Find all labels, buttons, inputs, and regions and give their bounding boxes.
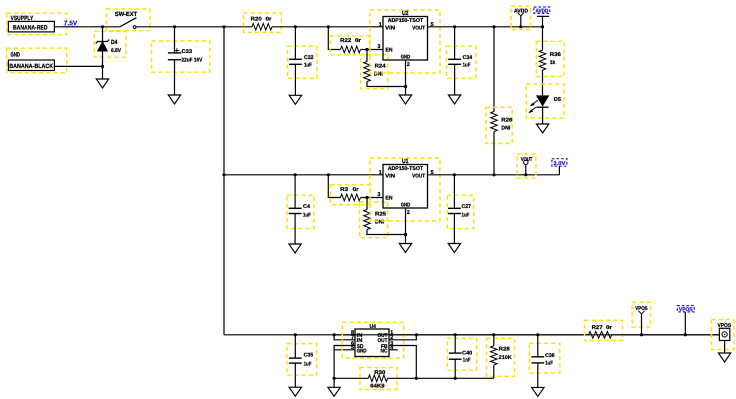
svg-text:0r: 0r (353, 187, 360, 193)
ground below D5 (536, 124, 548, 133)
svg-text:AVDD: AVDD (514, 9, 528, 15)
svg-text:R27: R27 (592, 325, 603, 331)
svg-text:NC: NC (381, 349, 388, 355)
capacitor C4 1uF (287, 175, 314, 244)
capacitor C33 22uF 16V (152, 27, 210, 95)
wire BANANA-BLACK to D4 node (54, 65, 102, 67)
wire U4 IN pins tie (334, 335, 355, 340)
ground below C36 (532, 387, 544, 396)
node junction U4 IN tie (333, 333, 336, 336)
wire down to R22 (328, 27, 340, 50)
node junction R30 left (333, 377, 336, 380)
connector VPOS (712, 320, 735, 354)
svg-text:R25: R25 (375, 211, 386, 217)
power symbol VPOS arrow (632, 302, 650, 335)
svg-text:AVDD: AVDD (536, 9, 549, 15)
wire U4 OUT pin1 (389, 334, 719, 336)
node junction C40 bottom (454, 377, 457, 380)
svg-text:1uF: 1uF (545, 361, 553, 367)
svg-text:C32: C32 (304, 55, 314, 61)
svg-text:1uF: 1uF (304, 362, 312, 368)
ground below C34 (448, 95, 460, 104)
zener diode D4 6.8V (94, 27, 126, 79)
svg-text:EN: EN (386, 195, 393, 201)
svg-text:6.8V: 6.8V (111, 48, 121, 54)
svg-text:D5: D5 (554, 97, 561, 103)
wire R26 to mid rail (493, 132, 495, 175)
svg-text:BANANA-RED: BANANA-RED (13, 24, 48, 31)
wire U4 OUT pin2 tie (389, 335, 416, 340)
svg-text:R3: R3 (340, 187, 348, 193)
node junction D4/BANANA-BLACK (101, 65, 104, 68)
node junction VOUT tap (524, 173, 527, 176)
wire U1 VOUT rail (428, 174, 560, 176)
node junction R24/GND pin (404, 85, 407, 88)
capacitor C27 1uF (447, 175, 473, 244)
capacitor C35 1uF (287, 335, 317, 387)
resistor R22 0r (330, 36, 369, 55)
ground below C35 (289, 387, 301, 396)
node junction C34 (453, 25, 456, 28)
node junction R3 branch (327, 173, 330, 176)
svg-text:3.0V: 3.0V (553, 161, 565, 167)
svg-text:U2: U2 (402, 10, 409, 17)
ground below VPOS connector (718, 353, 730, 362)
node junction left bus (222, 25, 225, 28)
svg-text:BANANA-BLACK: BANANA-BLACK (9, 63, 53, 70)
node junction C35 (294, 333, 297, 336)
wire FB row (388, 377, 494, 379)
switch SW-EXT (106, 9, 150, 31)
regulator U4 (342, 322, 403, 358)
svg-text:GND: GND (357, 349, 367, 355)
power symbol AVDD arrow (511, 6, 531, 30)
svg-text:C36: C36 (545, 353, 555, 359)
wire bottom rail (224, 334, 589, 336)
node junction C33 (173, 25, 176, 28)
ground below C33 (168, 95, 180, 104)
wire U2 VOUT rail (428, 26, 543, 28)
svg-text:2: 2 (407, 210, 410, 216)
ground below U2 (399, 95, 411, 104)
resistor R28 210K (487, 335, 515, 379)
node junction R28 top (492, 333, 495, 336)
op-amp U2 ADP150-TSOT regulator (370, 10, 440, 73)
wire SD/GND down to ground (333, 378, 335, 387)
svg-text:3: 3 (377, 192, 380, 198)
svg-text:GND: GND (401, 202, 411, 208)
wire down to R26 (493, 27, 495, 112)
node junction C4 (294, 173, 297, 176)
wire U4 SD GND pins tie (334, 346, 355, 379)
capacitor C32 1uF (288, 27, 318, 96)
svg-text:ADP150-TSOT: ADP150-TSOT (388, 18, 424, 24)
resistor R3 0r (331, 185, 371, 205)
svg-text:VIN: VIN (385, 174, 395, 180)
resistor R30 64K9 (334, 368, 397, 390)
svg-text:1: 1 (379, 22, 382, 28)
ground below D4 (96, 79, 108, 88)
svg-text:1: 1 (379, 170, 382, 176)
node junction VPOS label (684, 333, 687, 336)
ground below C4 (289, 244, 301, 253)
net label VPOS blue (677, 306, 694, 314)
node junction R22 branch (327, 25, 330, 28)
svg-text:R22: R22 (340, 38, 351, 44)
resistor R24 DNI (361, 50, 406, 89)
node junction C32 (294, 25, 297, 28)
power bar AVDD (537, 16, 549, 26)
svg-text:2: 2 (407, 62, 410, 68)
svg-text:C27: C27 (462, 204, 472, 210)
svg-text:EN: EN (386, 47, 393, 53)
node junction mid bus (222, 173, 225, 176)
node junction at D4 tap (101, 25, 104, 28)
svg-text:U4: U4 (370, 324, 377, 330)
node junction C27 (453, 173, 456, 176)
wire R27 to VPOS connector (612, 334, 719, 336)
wire R20 to U2 VIN (272, 26, 383, 28)
svg-text:U1: U1 (402, 158, 409, 165)
svg-text:C33: C33 (182, 49, 193, 55)
capacitor C36 1uF (529, 335, 560, 388)
svg-text:3: 3 (377, 44, 380, 50)
node junction C36 (536, 333, 539, 336)
svg-text:1uF: 1uF (463, 63, 471, 69)
svg-text:R26: R26 (501, 118, 512, 124)
svg-text:1k: 1k (550, 60, 556, 66)
test point VOUT (517, 154, 536, 178)
svg-text:C34: C34 (463, 55, 473, 61)
resistor R25 DNI (360, 198, 406, 238)
resistor R20 0r (244, 13, 282, 32)
ground below U1 (399, 244, 411, 253)
svg-text:5: 5 (351, 345, 354, 351)
wire U1 GND pin to ground (405, 208, 407, 244)
wire down to R3 (328, 175, 340, 198)
wire VSUPPLY to node A (54, 26, 119, 28)
capacitor C34 1uF (447, 27, 477, 95)
capacitor C40 1nF (447, 335, 476, 379)
node junction R22/R24 (365, 48, 368, 51)
svg-text:GND: GND (401, 54, 411, 60)
connector J GND BANANA-BLACK (7, 48, 67, 73)
LED D5 (526, 84, 564, 124)
wire U4 FB pin3 down (389, 346, 416, 379)
svg-text:R36: R36 (550, 52, 561, 58)
wire U2 GND pin to ground (405, 60, 407, 95)
svg-text:1uF: 1uF (304, 63, 312, 69)
svg-text:VOUT: VOUT (412, 174, 426, 180)
node junction AVDD arrow (519, 25, 522, 28)
resistor R36 1k (536, 27, 564, 96)
connector J VSUPPLY BANANA-RED (7, 13, 67, 34)
wire stub to 3.0V label (558, 166, 560, 175)
net label AVDD blue (534, 7, 550, 15)
wire U4 NC pin4 stub (389, 349, 398, 351)
node junction R26 bus bottom (492, 173, 495, 176)
svg-text:64K9: 64K9 (370, 384, 384, 390)
svg-text:GND: GND (11, 51, 21, 58)
svg-text:VOUT: VOUT (412, 26, 426, 32)
ground below C27 (448, 244, 460, 253)
svg-text:VPOS: VPOS (635, 306, 648, 312)
wire R3 to EN pin (361, 197, 384, 199)
svg-text:VIN: VIN (385, 26, 395, 32)
svg-text:R28: R28 (499, 346, 510, 352)
svg-text:SW-EXT: SW-EXT (115, 11, 137, 18)
svg-text:C4: C4 (303, 204, 310, 210)
svg-text:DNI: DNI (501, 126, 510, 132)
node junction rail end (541, 25, 544, 28)
svg-text:1uF: 1uF (303, 212, 311, 218)
svg-text:1uF: 1uF (462, 212, 470, 218)
svg-text:VSUPPLY: VSUPPLY (11, 15, 34, 22)
resistor R26 DNI (486, 107, 512, 143)
svg-text:ADP150-TSOT: ADP150-TSOT (388, 166, 424, 172)
wire stub VPOS label (684, 312, 686, 335)
node junction R26 bus top (492, 25, 495, 28)
svg-text:C40: C40 (462, 350, 472, 356)
node junction FB row (415, 377, 418, 380)
svg-text:1nF: 1nF (463, 358, 471, 364)
svg-text:VPOS: VPOS (679, 307, 693, 313)
svg-text:D4: D4 (111, 39, 118, 46)
wire switch to R20 (136, 26, 252, 28)
svg-text:0r: 0r (606, 325, 613, 331)
net label 3.0V blue (552, 159, 567, 167)
node junction VPOS arrow (640, 333, 643, 336)
svg-text:0r: 0r (355, 38, 362, 44)
resistor R27 0r (585, 320, 623, 340)
node junction C40 top (454, 333, 457, 336)
ground below C32 (289, 95, 301, 104)
svg-text:210K: 210K (499, 355, 512, 361)
op-amp U1 ADP150-TSOT regulator (370, 158, 440, 221)
wire R22 to EN pin (361, 49, 384, 51)
svg-text:R24: R24 (375, 63, 386, 69)
wire mid rail to U1 VIN (224, 174, 383, 176)
wire left vertical bus (223, 27, 225, 335)
svg-text:22uF 16V: 22uF 16V (182, 58, 203, 64)
node junction R3/R25 (365, 196, 368, 199)
node junction R25/GND pin (404, 233, 407, 236)
svg-text:C35: C35 (304, 353, 314, 359)
svg-text:0r: 0r (266, 16, 273, 22)
ground below U4 (328, 387, 340, 396)
node junction OUT tie (415, 333, 418, 336)
svg-text:R20: R20 (251, 16, 262, 22)
